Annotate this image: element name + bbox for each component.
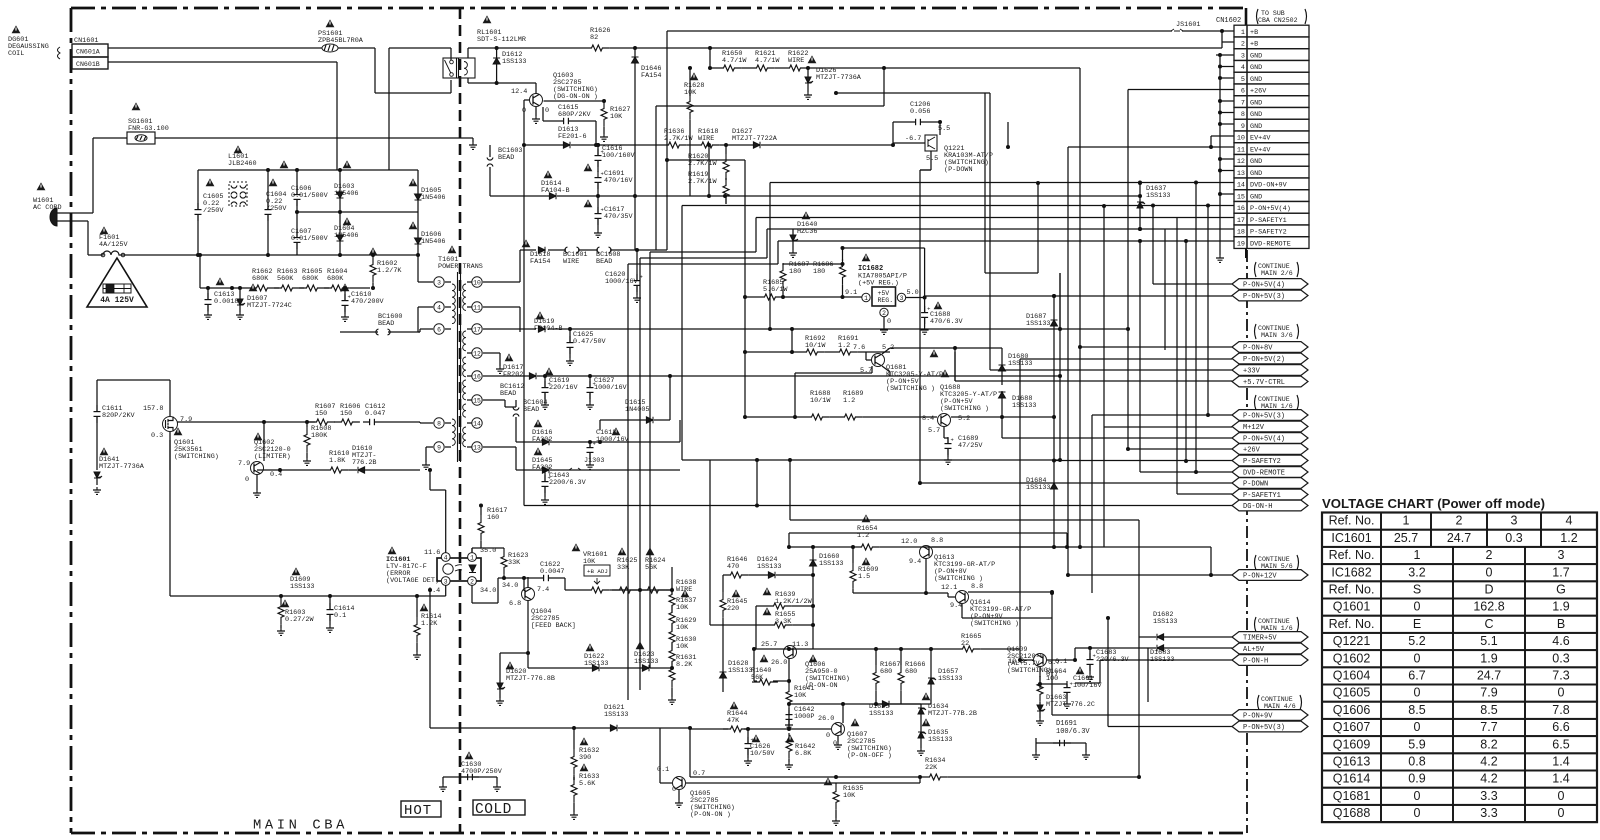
resistor R1632 (571, 726, 599, 780)
svg-text:1.5: 1.5 (858, 573, 870, 581)
border frame dash-dot outline (71, 8, 1247, 833)
wire flag M+12V (1102, 204, 1232, 547)
wire flag P-SAFETY2 (1054, 229, 1232, 461)
svg-text:11.6: 11.6 (424, 549, 440, 557)
svg-text:162.8: 162.8 (1473, 600, 1504, 614)
svg-text:+: + (548, 475, 551, 482)
wire pin16 P-ON+5V4 (682, 206, 1234, 461)
svg-text:2: 2 (470, 578, 474, 585)
svg-text:P-ON+12V: P-ON+12V (1243, 573, 1277, 581)
svg-text:P-DOWN: P-DOWN (1243, 481, 1268, 489)
transistor Q1602 (238, 432, 291, 497)
svg-text:2.7K/1W: 2.7K/1W (664, 135, 693, 143)
svg-text:7.9: 7.9 (180, 416, 192, 424)
wire flag P-ON+5V3 C (1050, 415, 1232, 595)
resistor R1654 (789, 514, 930, 550)
svg-text:220/16V: 220/16V (549, 384, 578, 392)
svg-text:7.7: 7.7 (1480, 720, 1497, 734)
capacitor C1604 (265, 170, 288, 255)
svg-text:MTZJT-7724C: MTZJT-7724C (247, 302, 292, 310)
diode D1622 (528, 643, 634, 671)
line filter L1601 (228, 145, 257, 206)
resistor R1625 (612, 547, 642, 593)
svg-text:7.9: 7.9 (238, 460, 250, 468)
svg-text:/250V: /250V (203, 207, 224, 215)
resistor R1614 (413, 594, 441, 659)
svg-text:10K: 10K (676, 643, 689, 651)
svg-text:IC1601: IC1601 (1331, 531, 1371, 545)
svg-text:6: 6 (437, 326, 441, 333)
svg-text:11: 11 (473, 304, 481, 311)
svg-text:25.7: 25.7 (761, 641, 777, 649)
svg-text:82: 82 (590, 34, 598, 42)
svg-text:REG.: REG. (878, 297, 894, 304)
wire EV4V rail B (1006, 122, 1010, 149)
resistor R1691 (825, 335, 890, 355)
svg-text:0: 0 (826, 732, 830, 740)
svg-text:2: 2 (1486, 548, 1493, 562)
resistor R1655 (710, 460, 815, 649)
svg-text:TIMER+5V: TIMER+5V (1243, 635, 1277, 643)
svg-text:GND: GND (1250, 64, 1262, 72)
svg-text:MTZJT-7736A: MTZJT-7736A (816, 74, 862, 82)
svg-text:D1691: D1691 (1056, 720, 1077, 728)
diode D1619 (534, 311, 563, 333)
resistor R1667 (873, 649, 900, 706)
svg-text:9: 9 (1241, 123, 1245, 131)
wire emitter return loop (793, 366, 872, 419)
resistor R1628 (684, 66, 704, 196)
wire pin18 P-SAFETY2 (640, 227, 1234, 690)
svg-text:CONTINUE: CONTINUE (1258, 263, 1290, 270)
label MAIN CBA (253, 819, 348, 834)
svg-text:1000P: 1000P (794, 713, 814, 721)
transistor Q1614 (948, 590, 1054, 628)
diode D1613 (524, 100, 598, 148)
svg-text:0.1: 0.1 (334, 612, 346, 620)
svg-text:10K: 10K (610, 113, 623, 121)
diode D1614 (490, 170, 1140, 199)
label COLD box (473, 800, 525, 818)
svg-text:390: 390 (579, 754, 591, 762)
resistor R1636 (596, 128, 693, 148)
diode D1623 (634, 641, 674, 671)
capacitor C1619 (541, 367, 578, 409)
svg-text:FR202: FR202 (503, 371, 523, 379)
diode D1616 (516, 419, 680, 445)
resistor R1602 (369, 247, 403, 290)
svg-text:18: 18 (1237, 229, 1245, 237)
net flag P-ON-H (1232, 655, 1308, 666)
svg-text:5.5: 5.5 (926, 155, 938, 163)
svg-text:1: 1 (470, 554, 474, 561)
svg-text:+: + (348, 294, 351, 301)
transformer pin 9 (434, 442, 451, 452)
wire pin14 DVD-ON+9V (768, 181, 1234, 332)
HOT/COLD isolation boundary dashed line (459, 8, 462, 833)
connector CN1602 (1216, 9, 1309, 258)
svg-text:+5.7V-CTRL: +5.7V-CTRL (1243, 379, 1285, 387)
svg-text:CONTINUE: CONTINUE (1261, 696, 1293, 703)
svg-text:776.2B: 776.2B (352, 459, 376, 467)
svg-text:6.7: 6.7 (1408, 669, 1425, 683)
wire flag +33V (834, 91, 1232, 370)
svg-text:15: 15 (1237, 193, 1245, 201)
svg-text:ZPB45BL7R0A: ZPB45BL7R0A (318, 37, 364, 45)
svg-text:Q1602: Q1602 (1333, 651, 1371, 665)
svg-text:6.5: 6.5 (1552, 737, 1569, 751)
transformer pin 16 (467, 371, 482, 381)
wire flag DVD-REMOTE (1140, 241, 1232, 472)
diode D1680 (999, 348, 1033, 385)
diode D1634 (918, 692, 977, 729)
svg-text:180: 180 (813, 268, 825, 276)
ferrite bead BC1612 (500, 383, 524, 398)
svg-text:150: 150 (340, 410, 352, 418)
svg-text:47K: 47K (727, 717, 740, 725)
svg-text:5.6/1W: 5.6/1W (763, 286, 788, 294)
svg-text:19: 19 (1237, 240, 1245, 248)
svg-text:0: 0 (1414, 720, 1421, 734)
svg-text:JLB2460: JLB2460 (228, 160, 257, 168)
svg-text:1SS133: 1SS133 (928, 736, 952, 744)
transformer pin 14 (467, 418, 482, 428)
node drain voltage 157.8 (143, 405, 163, 413)
resistor R1623 (501, 548, 528, 580)
zener D1610 (257, 445, 420, 473)
svg-text:Q1601: Q1601 (1333, 600, 1371, 614)
svg-text:7.8: 7.8 (1552, 703, 1569, 717)
svg-text:1SS133: 1SS133 (604, 711, 628, 719)
svg-text:Ref. No.: Ref. No. (1329, 583, 1375, 597)
net flag P-ON+8V (1232, 342, 1308, 353)
resistor R1646 (723, 556, 749, 578)
wire rail x770 (0, 0, 1, 1)
wire bottom nest (924, 776, 1139, 778)
wire flag P-ON+5V4 C (1002, 410, 1232, 438)
wire snubber top (97, 380, 170, 470)
svg-text:1N4005: 1N4005 (625, 406, 649, 414)
capacitor C1610 (341, 283, 385, 321)
svg-text:470: 470 (727, 563, 739, 571)
svg-text:10.3: 10.3 (1008, 658, 1024, 666)
svg-text:680: 680 (905, 668, 917, 676)
svg-text:10K: 10K (843, 792, 856, 800)
svg-text:680: 680 (880, 668, 892, 676)
svg-text:Q1604: Q1604 (1333, 669, 1371, 683)
svg-text:P-ON+9V: P-ON+9V (1243, 713, 1273, 721)
svg-text:4: 4 (1566, 514, 1573, 528)
resistor R1604 (324, 268, 350, 291)
svg-text:3.3: 3.3 (1480, 806, 1497, 820)
resistor R1610 (323, 450, 349, 473)
zener D1607 (236, 283, 292, 319)
svg-text:10/50V: 10/50V (750, 750, 775, 758)
svg-text:150: 150 (315, 410, 327, 418)
svg-text:1SS133: 1SS133 (1146, 192, 1170, 200)
svg-text:BEAD: BEAD (498, 154, 514, 162)
svg-text:47/25V: 47/25V (958, 442, 983, 450)
capacitor C1683 (1086, 646, 1130, 681)
svg-text:24.7: 24.7 (1447, 531, 1471, 545)
svg-text:1SS133: 1SS133 (290, 583, 314, 591)
transistor Q1604 (502, 577, 576, 653)
svg-text:P-SAFETY2: P-SAFETY2 (1250, 229, 1287, 237)
wire pin12 gnd (483, 353, 504, 373)
wire AC lower rail (125, 253, 418, 257)
resistor R1685 (743, 279, 843, 300)
resistor R1688 (743, 390, 831, 420)
svg-text:DVD-REMOTE: DVD-REMOTE (1250, 240, 1291, 248)
svg-text:1SS133: 1SS133 (1012, 402, 1036, 410)
wire 12V rail (930, 546, 1211, 548)
svg-text:+B: +B (1250, 41, 1258, 49)
svg-text:16: 16 (473, 373, 481, 380)
svg-text:8.2: 8.2 (1480, 737, 1497, 751)
svg-text:MTZJT-776.8B: MTZJT-776.8B (506, 675, 555, 683)
resistor R1606 (334, 403, 360, 425)
resistor R1621 (742, 50, 780, 71)
svg-text:10/1W: 10/1W (810, 397, 831, 405)
net flag P-DOWN (1232, 478, 1308, 489)
svg-text:Q1607: Q1607 (1333, 720, 1371, 734)
svg-text:5.6K: 5.6K (579, 780, 596, 788)
svg-text:8.5: 8.5 (1480, 703, 1497, 717)
ferrite bead BC1600 (340, 313, 420, 335)
net flag TIMER+5V (1232, 632, 1308, 643)
svg-text:0: 0 (1414, 806, 1421, 820)
svg-text:GND: GND (1250, 52, 1262, 60)
svg-text:100/6.3V: 100/6.3V (1056, 728, 1090, 736)
svg-text:P-ON+5V(4): P-ON+5V(4) (1243, 436, 1285, 444)
svg-text:P-SAFETY2: P-SAFETY2 (1243, 458, 1281, 466)
svg-text:HOT: HOT (404, 803, 432, 819)
svg-text:17: 17 (1237, 217, 1245, 225)
resistor R1603 (277, 596, 314, 635)
svg-text:7.4: 7.4 (537, 586, 549, 594)
svg-text:P-ON+5V(2): P-ON+5V(2) (1243, 356, 1285, 364)
svg-text:0: 0 (1486, 565, 1493, 579)
svg-text:5.7: 5.7 (928, 427, 940, 435)
wire flag P-ON+8V (1078, 68, 1232, 549)
svg-text:12.1: 12.1 (941, 584, 957, 592)
svg-text:22: 22 (961, 640, 969, 648)
svg-text:0.3: 0.3 (151, 432, 163, 440)
resistor R1634 (690, 757, 1139, 780)
svg-text:3.3: 3.3 (1480, 789, 1497, 803)
svg-text:1: 1 (1403, 514, 1410, 528)
transistor Q1605 (657, 728, 920, 819)
wire fb ladder (670, 567, 674, 592)
transformer pin 3 (434, 277, 451, 287)
svg-text:C: C (1484, 617, 1493, 631)
wire pin11 EV+4V (1068, 147, 1234, 575)
transformer pin 8 (434, 418, 451, 428)
svg-text:5.0: 5.0 (907, 289, 919, 297)
svg-text:+B ADJ: +B ADJ (587, 568, 608, 575)
wire flag P-SAFETY1 (1177, 218, 1232, 495)
svg-text:1.4: 1.4 (1552, 755, 1569, 769)
wire flag P-ON+12V (1066, 547, 1232, 577)
resistor R1605 (299, 268, 325, 291)
fuse warning triangle 4A 125V (87, 258, 147, 307)
wire pin1 stub (1222, 30, 1234, 32)
svg-text:G: G (1556, 583, 1566, 597)
svg-text:DVD-REMOTE: DVD-REMOTE (1243, 470, 1285, 478)
resistor R1666 (898, 649, 925, 704)
svg-text:Q1606: Q1606 (1333, 703, 1371, 717)
capacitor D1691 (1032, 720, 1090, 759)
diode D1605 (409, 170, 446, 218)
svg-text:34.0: 34.0 (480, 587, 496, 595)
svg-text:BEAD: BEAD (378, 320, 394, 328)
svg-text:0.47/50V: 0.47/50V (573, 338, 607, 346)
svg-text:14: 14 (473, 420, 481, 427)
ground gnd bus (1216, 255, 1224, 262)
wire top rail to +B (709, 49, 711, 51)
wire secondary +B rail (483, 31, 667, 282)
svg-text:CN601A: CN601A (76, 49, 100, 56)
svg-text:IC1682: IC1682 (1331, 565, 1371, 579)
svg-text:+: + (927, 306, 930, 313)
svg-text:MTZJT-77B.2B: MTZJT-77B.2B (928, 710, 977, 718)
capacitor C1616 (595, 143, 636, 172)
wire bus v836 (0, 0, 1, 1)
svg-text:SDT-S-112LMR: SDT-S-112LMR (477, 36, 526, 44)
svg-text:0: 0 (1414, 686, 1421, 700)
svg-text:820P/2KV: 820P/2KV (102, 412, 136, 420)
svg-text:CN1602: CN1602 (1216, 17, 1241, 25)
resistor R1644 (690, 701, 791, 732)
diode D1657 (928, 649, 962, 704)
svg-text:4.7/1W: 4.7/1W (755, 57, 780, 65)
wire limiter rail (177, 420, 315, 461)
resistor R1642 (785, 733, 815, 769)
wire flag P-ON-H (1075, 660, 1232, 683)
diode D1621 (428, 588, 690, 731)
wire +B JS1601 rail (667, 29, 1224, 33)
wire primary pin6 (420, 329, 433, 332)
posistor PS1601 (318, 19, 364, 52)
svg-text:GND: GND (1250, 123, 1262, 131)
svg-text:+26V: +26V (1250, 88, 1267, 96)
capacitor C1617 (584, 196, 634, 237)
regulator IC1682 (843, 248, 926, 334)
net flag M+12V (1232, 421, 1308, 432)
svg-text:9.4: 9.4 (950, 602, 962, 610)
ferrite bead BC1608 (596, 247, 620, 266)
wire pin11 stub (483, 307, 520, 332)
svg-text:11: 11 (1237, 146, 1245, 154)
resistor R1662 (249, 268, 275, 291)
svg-text:1.9: 1.9 (1552, 600, 1569, 614)
svg-text:34.0: 34.0 (502, 582, 518, 590)
svg-text:10K: 10K (794, 692, 807, 700)
svg-text:GND: GND (1250, 111, 1262, 119)
svg-text:Q1688: Q1688 (1333, 806, 1371, 820)
svg-text:CONTINUE: CONTINUE (1258, 618, 1290, 625)
resistor R1645 (720, 575, 747, 669)
svg-text:MTZJT-7736A: MTZJT-7736A (99, 463, 145, 471)
capacitor C1618 (586, 427, 630, 469)
wire bottom left rail (688, 726, 692, 777)
svg-text:1.2/7K: 1.2/7K (377, 267, 402, 275)
node 12.1 (941, 583, 983, 592)
transformer pin 11 (467, 302, 482, 312)
svg-text:BEAD: BEAD (500, 390, 516, 398)
wire bridge mid node (297, 211, 418, 213)
svg-text:4.7/1W: 4.7/1W (722, 57, 747, 65)
svg-text:+26V: +26V (1243, 447, 1261, 455)
svg-text:+5V: +5V (878, 290, 890, 297)
svg-text:1N5406: 1N5406 (421, 194, 445, 202)
svg-text:680K: 680K (302, 275, 319, 283)
capacitor C1613 (204, 277, 238, 319)
svg-text:(SWITCHING ): (SWITCHING ) (970, 620, 1019, 628)
capacitor C1607 (291, 210, 329, 255)
capacitor C1661 (1038, 666, 1102, 708)
svg-text:5: 5 (1241, 76, 1245, 84)
svg-text:CN601B: CN601B (76, 61, 100, 68)
svg-text:POWER TRANS: POWER TRANS (438, 263, 483, 271)
resistor R1635 (824, 777, 864, 825)
svg-text:GND: GND (1250, 76, 1262, 84)
svg-text:1.2: 1.2 (838, 342, 850, 350)
wire flag DG-ON-H (522, 143, 1232, 506)
svg-text:160: 160 (487, 514, 499, 522)
capacitor C1627 (586, 376, 628, 409)
resistor R1665 (754, 633, 1020, 652)
svg-text:2.7K/1W: 2.7K/1W (688, 160, 717, 168)
svg-text:GND: GND (1250, 170, 1262, 178)
wire feedback down (428, 468, 446, 546)
wire flag P-ON+5V2 (1018, 359, 1232, 662)
svg-text:WIRE: WIRE (563, 258, 579, 266)
svg-text:12: 12 (473, 350, 481, 357)
transformer pin 13 (467, 442, 482, 452)
svg-text:1.8K: 1.8K (329, 457, 346, 465)
svg-text:P-ON+5V(4): P-ON+5V(4) (1250, 205, 1291, 213)
capacitor C1605 (195, 170, 225, 255)
wire pin10 EV+4V (1209, 136, 1234, 149)
capacitor C1614 (326, 596, 354, 632)
wire rail729 (789, 728, 831, 730)
transformer pin 10 (467, 277, 482, 287)
svg-text:COLD: COLD (475, 802, 512, 818)
wire SG1601 row (93, 138, 477, 149)
wire primary pin8 (420, 422, 433, 423)
resistor R1607 (309, 403, 335, 425)
wire mid loop b (788, 458, 1139, 637)
svg-text:1SS133: 1SS133 (819, 560, 843, 568)
capacitor C1688 (921, 248, 1232, 334)
svg-text:MAIN 3/6: MAIN 3/6 (1261, 332, 1293, 339)
svg-text:1.4: 1.4 (1552, 772, 1569, 786)
capacitor C1606 (280, 160, 329, 212)
wire q1221 net (920, 169, 931, 171)
svg-text:470/16V: 470/16V (604, 177, 633, 185)
diode D1687 (1026, 296, 1058, 547)
ferrite bead BC1604 (483, 399, 547, 424)
svg-text:470/35V: 470/35V (604, 213, 633, 221)
svg-text:25.7: 25.7 (1394, 531, 1418, 545)
wire q-rail 704 (789, 702, 886, 706)
svg-text:1SS133: 1SS133 (1026, 320, 1050, 328)
diode D1618 (522, 239, 551, 266)
resistor R1689 (830, 390, 863, 420)
transformer pin 6 (434, 324, 451, 334)
resistor R1664 (1037, 659, 1066, 704)
